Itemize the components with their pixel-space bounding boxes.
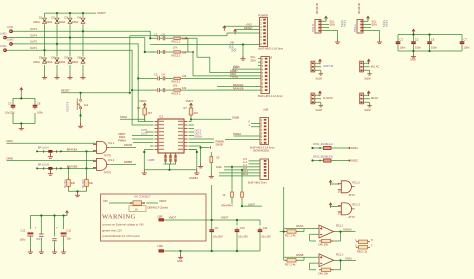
svg-text:100n: 100n xyxy=(37,111,43,115)
svg-text:SNS1: SNS1 xyxy=(345,256,352,260)
svg-text:C7: C7 xyxy=(8,102,12,106)
svg-text:D4: D4 xyxy=(78,16,82,20)
svg-text:DIDA: DIDA xyxy=(72,60,78,64)
svg-text:D-SCTF: D-SCTF xyxy=(323,96,333,100)
svg-text:AD-Dx: AD-Dx xyxy=(371,96,379,100)
svg-text:DIDA: DIDA xyxy=(46,60,52,64)
svg-text:BRAKEA: BRAKEA xyxy=(67,148,78,152)
svg-text:10u 25V: 10u 25V xyxy=(213,235,223,239)
svg-text:8x1F-H8.5-1.1A 3mm: 8x1F-H8.5-1.1A 3mm xyxy=(258,94,283,98)
svg-text:RC1.2: RC1.2 xyxy=(336,252,344,256)
svg-text:C7: C7 xyxy=(464,38,468,42)
svg-text:BR-LK3-A: BR-LK3-A xyxy=(38,147,49,150)
svg-text:GND8A: GND8A xyxy=(189,176,198,180)
svg-text:TW1-N: TW1-N xyxy=(312,24,315,32)
svg-text:LTK: LTK xyxy=(173,45,178,49)
svg-text:SCL: SCL xyxy=(251,55,257,59)
svg-text:BRAKEB: BRAKEB xyxy=(67,165,78,169)
svg-text:LTK: LTK xyxy=(173,84,178,88)
svg-text:VMOT: VMOT xyxy=(159,199,167,203)
svg-text:PWMB: PWMB xyxy=(230,75,238,79)
svg-text:OUT3: OUT3 xyxy=(30,27,37,31)
svg-text:UMOT: UMOT xyxy=(118,132,126,136)
svg-text:DEFAULT Closed: DEFAULT Closed xyxy=(148,205,169,209)
svg-text:R7: R7 xyxy=(184,106,188,110)
svg-text:C9: C9 xyxy=(215,226,219,230)
svg-text:74T70: 74T70 xyxy=(104,153,112,157)
svg-text:RC1.2: RC1.2 xyxy=(353,181,361,185)
svg-text:+3V3: +3V3 xyxy=(246,22,253,26)
svg-text:POWER: POWER xyxy=(258,14,268,18)
svg-text:74T70: 74T70 xyxy=(104,170,112,174)
svg-text:D7: D7 xyxy=(65,56,69,60)
svg-text:DKS1_ENABLE-A: DKS1_ENABLE-A xyxy=(313,143,333,146)
svg-text:4K7: 4K7 xyxy=(194,111,199,115)
svg-text:VMOT: VMOT xyxy=(169,215,177,219)
svg-text:D1: D1 xyxy=(39,16,43,20)
svg-text:DKS2_ENABLE-B: DKS2_ENABLE-B xyxy=(313,155,333,158)
svg-text:R17.2 4k: R17.2 4k xyxy=(285,262,296,266)
svg-text:C12: C12 xyxy=(21,229,26,233)
svg-text:R17.1 4k: R17.1 4k xyxy=(285,234,296,238)
svg-text:8x1F-H8.5-1.1A 3mm: 8x1F-H8.5-1.1A 3mm xyxy=(259,47,284,51)
svg-text:1A: 1A xyxy=(135,207,138,211)
svg-text:could DAMAGE the CPU board: could DAMAGE the CPU board xyxy=(102,234,140,238)
svg-text:10u 25V: 10u 25V xyxy=(238,235,248,239)
svg-text:R6C2.2: R6C2.2 xyxy=(172,53,181,57)
svg-text:RESET: RESET xyxy=(244,26,253,30)
svg-text:BR-9KE: BR-9KE xyxy=(64,179,67,188)
svg-text:TW1-X: TW1-X xyxy=(354,24,357,32)
svg-text:100n: 100n xyxy=(216,165,222,169)
svg-text:J/B: J/B xyxy=(230,41,234,45)
svg-text:C1: C1 xyxy=(400,38,404,42)
svg-text:10k: 10k xyxy=(182,50,187,54)
svg-text:D2: D2 xyxy=(52,16,56,20)
svg-text:C5: C5 xyxy=(216,155,220,159)
svg-text:AT70: AT70 xyxy=(349,215,356,219)
svg-text:100n: 100n xyxy=(464,46,470,50)
svg-text:R6: R6 xyxy=(137,106,141,110)
svg-text:IC1.2: IC1.2 xyxy=(108,158,115,162)
svg-text:100n: 100n xyxy=(431,46,437,50)
svg-text:VMOT: VMOT xyxy=(221,215,229,219)
svg-text:DIRB: DIRB xyxy=(7,156,13,160)
svg-text:R5C2 1k: R5C2 1k xyxy=(357,250,368,254)
svg-text:IC1.1: IC1.1 xyxy=(108,141,115,145)
svg-text:MPU6-08: MPU6-08 xyxy=(357,2,361,14)
svg-text:C10: C10 xyxy=(240,226,245,230)
svg-text:10k: 10k xyxy=(182,74,187,78)
svg-text:DIDA: DIDA xyxy=(46,20,52,24)
svg-text:AT70: AT70 xyxy=(349,193,356,197)
svg-text:R6C4.2: R6C4.2 xyxy=(172,91,181,95)
svg-text:L298P: L298P xyxy=(148,159,155,162)
svg-text:100u: 100u xyxy=(20,238,26,242)
svg-text:RESET: RESET xyxy=(61,89,70,93)
svg-text:C11: C11 xyxy=(263,226,268,230)
svg-text:BR-LK3-B: BR-LK3-B xyxy=(38,164,49,167)
svg-text:100n: 100n xyxy=(415,46,421,50)
svg-text:D8: D8 xyxy=(78,56,82,60)
svg-text:R6C1.2: R6C1.2 xyxy=(172,40,181,44)
svg-text:LUM3: LUM3 xyxy=(7,39,14,42)
svg-text:MPU6-08: MPU6-08 xyxy=(315,2,319,14)
svg-text:LUM2: LUM2 xyxy=(0,33,7,36)
svg-text:Jx/B: Jx/B xyxy=(263,108,268,112)
svg-text:DIDA: DIDA xyxy=(72,20,78,24)
svg-text:SNS1: SNS1 xyxy=(351,146,358,150)
svg-text:8x1F-H8.5 3mm: 8x1F-H8.5 3mm xyxy=(248,181,267,185)
svg-text:GND: GND xyxy=(410,58,416,62)
svg-text:4K7: 4K7 xyxy=(148,111,153,115)
svg-text:IC1: IC1 xyxy=(159,115,164,119)
svg-text:3x1M: 3x1M xyxy=(316,76,322,80)
svg-text:C4: C4 xyxy=(162,73,166,77)
svg-text:1k2: 1k2 xyxy=(84,103,89,107)
svg-text:OUT1: OUT1 xyxy=(30,46,37,50)
svg-text:C11: C11 xyxy=(67,229,72,233)
svg-text:R6C3.2: R6C3.2 xyxy=(172,80,181,84)
svg-text:RC1.1: RC1.1 xyxy=(336,224,344,228)
svg-text:DIRBB: DIRBB xyxy=(124,160,132,164)
svg-text:OUT4: OUT4 xyxy=(30,33,37,37)
svg-text:SDA: SDA xyxy=(251,58,257,62)
svg-text:RESET-9: RESET-9 xyxy=(67,101,70,112)
svg-text:D5: D5 xyxy=(39,56,43,60)
svg-text:LBP: LBP xyxy=(158,214,163,218)
svg-text:SDA: SDA xyxy=(330,22,336,26)
svg-text:10u: 10u xyxy=(67,237,72,241)
svg-text:10k: 10k xyxy=(71,181,76,185)
svg-text:LUM1: LUM1 xyxy=(7,26,14,29)
svg-text:C6: C6 xyxy=(431,38,435,42)
svg-text:3x1M: 3x1M xyxy=(364,76,370,80)
svg-text:IAC AC: IAC AC xyxy=(371,65,380,69)
svg-text:3x1M: 3x1M xyxy=(316,108,322,112)
svg-text:(ADVANCED): (ADVANCED) xyxy=(253,149,269,153)
svg-text:DIDA: DIDA xyxy=(34,20,40,24)
svg-text:connect an External voltage to: connect an External voltage to VIN xyxy=(102,222,143,226)
svg-text:D3: D3 xyxy=(65,16,69,20)
svg-text:LMN: LMN xyxy=(158,244,164,248)
svg-text:DIRAB: DIRAB xyxy=(124,143,132,147)
svg-text:SNS2: SNS2 xyxy=(351,159,358,163)
svg-text:AVR TW: AVR TW xyxy=(323,64,333,68)
svg-text:10p 25V: 10p 25V xyxy=(5,111,15,115)
svg-text:100n: 100n xyxy=(400,46,406,50)
svg-text:RN4: RN4 xyxy=(228,203,234,207)
svg-text:GND: GND xyxy=(177,259,183,263)
svg-text:DIRSA: DIRSA xyxy=(195,136,203,139)
svg-text:10u 25V: 10u 25V xyxy=(261,235,271,239)
svg-text:SNSB: SNSB xyxy=(232,116,239,120)
svg-text:BR-9KE: BR-9KE xyxy=(82,179,85,188)
svg-text:DIRA: DIRA xyxy=(119,135,125,139)
svg-text:VIN: VIN xyxy=(103,199,107,203)
svg-text:RN4: RN4 xyxy=(222,203,228,207)
svg-text:SNSA: SNSA xyxy=(120,115,127,119)
svg-text:DNSB: DNSB xyxy=(296,253,303,257)
svg-text:C4K 10k: C4K 10k xyxy=(318,243,329,247)
svg-text:IC2.2: IC2.2 xyxy=(36,237,43,241)
svg-text:LMNT: LMNT xyxy=(248,202,255,206)
svg-text:DIRA: DIRA xyxy=(7,139,13,143)
svg-text:greater than 12V: greater than 12V xyxy=(102,229,122,233)
svg-text:DIDA: DIDA xyxy=(59,20,65,24)
svg-text:DIDA: DIDA xyxy=(59,60,65,64)
svg-text:DIDA: DIDA xyxy=(34,60,40,64)
svg-text:SDA: SDA xyxy=(372,22,378,26)
svg-text:C4K 10k: C4K 10k xyxy=(318,272,329,276)
svg-text:SNSB: SNSB xyxy=(216,143,223,147)
svg-text:C2: C2 xyxy=(154,73,158,77)
svg-text:VMOT: VMOT xyxy=(97,11,106,15)
svg-text:10k: 10k xyxy=(182,86,187,90)
svg-text:WARNING: WARNING xyxy=(102,214,136,221)
svg-text:C8: C8 xyxy=(37,102,41,106)
svg-text:VIN CONNECT: VIN CONNECT xyxy=(134,195,151,198)
svg-text:VMOT: VMOT xyxy=(139,99,147,103)
svg-text:OUT2: OUT2 xyxy=(30,40,37,44)
svg-text:PWMA: PWMA xyxy=(118,139,126,143)
svg-text:RC1.3: RC1.3 xyxy=(353,203,361,207)
svg-text:SNSA0: SNSA0 xyxy=(343,228,352,232)
svg-text:PWMA: PWMA xyxy=(233,132,241,136)
svg-text:DNSA: DNSA xyxy=(296,224,303,228)
svg-text:C2: C2 xyxy=(415,38,419,42)
svg-text:D6: D6 xyxy=(52,56,56,60)
svg-text:VMOT: VMOT xyxy=(186,99,194,103)
svg-text:B: B xyxy=(271,56,273,60)
svg-text:10k: 10k xyxy=(89,181,94,185)
svg-text:3x1M: 3x1M xyxy=(364,108,370,112)
svg-text:LUM4: LUM4 xyxy=(0,45,7,48)
svg-text:OUT2: OUT2 xyxy=(141,132,148,135)
